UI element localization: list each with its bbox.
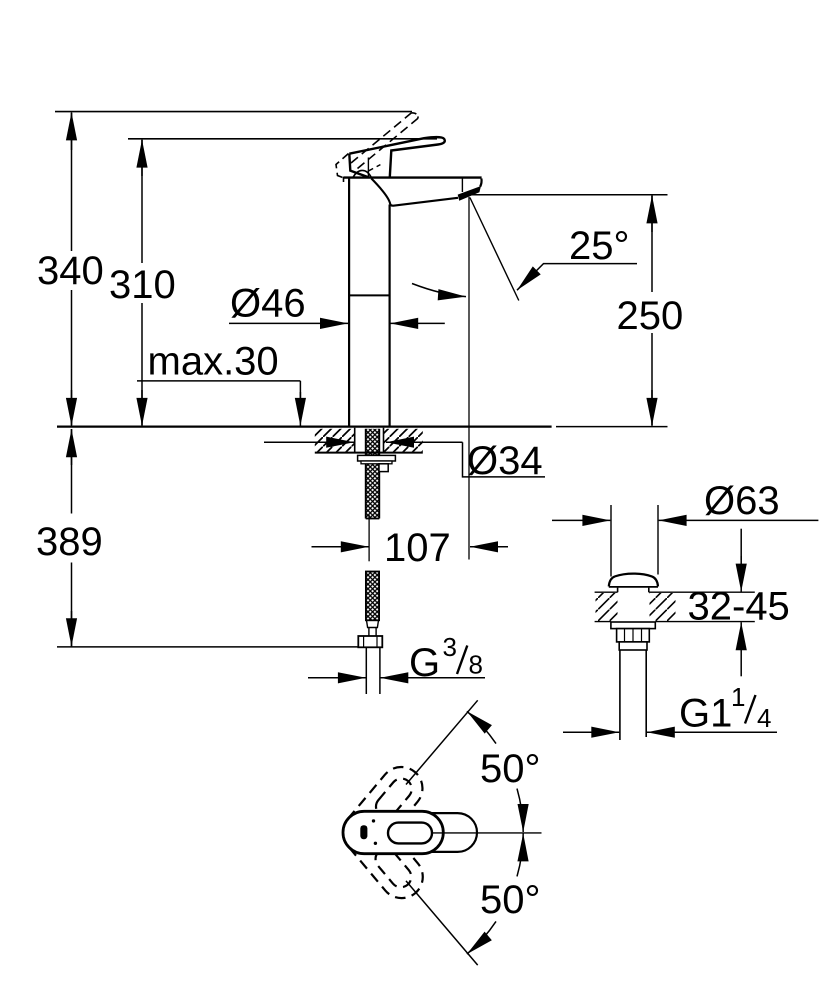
drain tailpipe left edge: [619, 650, 621, 740]
dashed handle stadium rotated down: [334, 803, 431, 907]
dimension 250 arrow up: [651, 195, 653, 232]
extension line 389 bottom (hose nut level): [57, 646, 358, 648]
swivel hint curved arrow at spout: [412, 284, 466, 297]
dimension 389 arrow up: [71, 429, 73, 465]
handle lever solid outline: [349, 137, 445, 177]
dimension 310 vertical line: [141, 140, 143, 263]
handle raised position dashed front line A: [351, 113, 412, 163]
handle raised dashed bottom segment: [368, 165, 381, 172]
plan view handle stadium: [343, 811, 443, 853]
svg-text:3: 3: [443, 632, 457, 662]
spout angle reference vertical line: [468, 197, 470, 560]
faucet column divider line: [349, 294, 390, 296]
drain tailpipe right edge: [645, 650, 647, 737]
svg-text:389: 389: [36, 520, 103, 564]
drain cap dome: [609, 574, 658, 587]
deck hatch left: [315, 429, 354, 452]
handle raised position dashed tip: [412, 113, 419, 119]
swivel arc lower with arrow to diagonal: [467, 921, 496, 954]
dimension 250 arrow down: [651, 390, 653, 426]
dimension Ø34 arrow right with leader: [386, 441, 463, 443]
dimension 340 arrow down: [71, 390, 73, 426]
drain body band: [619, 642, 647, 650]
swivel arc upper with arrow to centreline: [517, 789, 523, 832]
threaded shank braid: [366, 429, 380, 519]
dashed handle oval rotated up: [372, 774, 416, 821]
mounting nut lower: [361, 461, 392, 464]
mounting nut washer: [358, 455, 396, 461]
castellated nut slots: [624, 629, 626, 642]
svg-text:4: 4: [757, 703, 771, 733]
drain locknut flange: [611, 622, 655, 629]
supply tube right edge: [379, 647, 381, 694]
dimension max.30 vertical drop with arrow: [299, 381, 301, 398]
svg-text:max.30: max.30: [148, 340, 279, 384]
plan view dot lower: [374, 842, 377, 845]
hose connector taper: [367, 620, 379, 636]
dimension 340 vertical line: [71, 113, 73, 251]
swivel line lower 50 degrees: [406, 881, 478, 965]
dashed handle stadium rotated up: [334, 758, 431, 862]
svg-text:107: 107: [384, 526, 451, 570]
flexible hose braid: [366, 572, 379, 621]
svg-text:G: G: [409, 641, 440, 685]
extension line 250 top (spout tip level): [470, 194, 668, 196]
basin deck top line at drain: [595, 591, 618, 593]
swivel arc lower with arrow to centreline: [517, 833, 523, 876]
handle pivot vertical line: [367, 158, 369, 178]
dimension Ø63 arrow right: [659, 519, 819, 521]
svg-text:25°: 25°: [569, 224, 630, 268]
dimension 107 arrow left: [312, 546, 369, 548]
drain cap neck edges: [617, 588, 619, 593]
handle raised position dashed back outline: [336, 154, 349, 179]
svg-text:50°: 50°: [480, 747, 541, 791]
deck hole left edge: [354, 428, 356, 453]
spout underside and body junction curve: [371, 178, 458, 205]
svg-text:1: 1: [731, 682, 745, 712]
hose fitting block: [379, 464, 388, 472]
handle back edge: [349, 154, 369, 178]
dimension 310 arrow down: [141, 390, 143, 426]
drain Ø63 extension line left: [610, 505, 612, 577]
svg-text:310: 310: [109, 263, 176, 307]
drain cap base line: [609, 586, 658, 588]
dimension G3/8 arrow left: [308, 677, 366, 679]
deck hatch right: [384, 429, 423, 452]
dimension Ø34 arrow left: [264, 441, 354, 443]
faucet column right edge: [389, 205, 391, 427]
basin deck hatch right of drain: [650, 593, 676, 621]
dimension 32-45 lower arrow and line: [740, 622, 742, 650]
hose nut facets: [363, 636, 365, 647]
extension line top 340 level: [55, 111, 412, 113]
faucet body top left stub: [343, 177, 345, 182]
dimension Ø63 arrow left: [552, 519, 610, 521]
supply tube left edge: [365, 647, 367, 694]
basin deck bottom line at drain: [595, 621, 611, 623]
plan view handle oval: [388, 823, 432, 844]
dimension 389 arrow down: [71, 611, 73, 646]
faucet column left edge: [348, 178, 350, 427]
handle raised position dashed front line B: [358, 118, 419, 168]
dimension 107 arrow right: [470, 546, 508, 548]
dimension 340 arrow up: [71, 112, 73, 150]
spout stream direction line: [470, 198, 519, 301]
swivel arc upper with arrow to diagonal: [467, 711, 496, 743]
plan view centreline: [432, 832, 542, 834]
faucet centreline extension: [368, 515, 370, 562]
threaded shank edges: [365, 429, 367, 519]
deck hole right edge: [383, 428, 385, 453]
dimension Ø46 arrow right (points at column right edge): [390, 322, 445, 324]
dimension 310 arrow up: [141, 140, 143, 176]
dimension G3/8 arrow right: [380, 677, 485, 679]
faucet spout right edge: [480, 179, 481, 187]
countertop deck bottom line: [315, 452, 423, 454]
leader 25 degrees: [517, 264, 637, 291]
svg-text:G1: G1: [679, 692, 732, 736]
basin deck hatch left of drain: [596, 593, 618, 621]
dimension 250 vertical line: [651, 196, 653, 292]
dimension 32-45 upper line and arrow: [740, 529, 742, 560]
svg-text:50°: 50°: [480, 878, 541, 922]
extension line 310 level: [128, 138, 437, 140]
svg-text:250: 250: [617, 294, 684, 338]
drain Ø63 extension line right: [657, 505, 659, 575]
swivel line upper 50 degrees: [406, 700, 478, 784]
spout aerator dark wedge: [458, 186, 481, 201]
dashed handle oval rotated down: [371, 844, 415, 891]
hose nut: [358, 636, 382, 647]
dimension G1 1/4 arrow right: [647, 731, 777, 733]
countertop deck top line: [57, 425, 552, 427]
svg-text:Ø34: Ø34: [467, 439, 543, 483]
plan view dot upper: [372, 819, 375, 822]
svg-text:Ø46: Ø46: [230, 282, 306, 326]
svg-text:Ø63: Ø63: [704, 479, 780, 523]
spout end face inner line: [461, 179, 463, 193]
plan view logo mark: [360, 825, 367, 839]
plan view dashed swivel positions: [334, 758, 431, 906]
handle base dome arc: [353, 170, 372, 177]
svg-text:340: 340: [37, 249, 104, 293]
svg-text:32-45: 32-45: [688, 585, 790, 629]
dimension max.30 horizontal line: [137, 380, 300, 382]
flexible hose edges: [366, 572, 379, 621]
drain castellated nut: [617, 629, 650, 642]
label Ø46 arrow left (points at column left edge): [229, 322, 348, 324]
plan view spout stadium: [399, 813, 477, 852]
extension line 250 bottom (deck level right): [556, 426, 668, 428]
faucet body top line: [343, 176, 481, 178]
svg-text:8: 8: [469, 650, 483, 680]
dimension 389 vertical line: [71, 429, 73, 514]
dimension G1 1/4 arrow left: [563, 731, 619, 733]
